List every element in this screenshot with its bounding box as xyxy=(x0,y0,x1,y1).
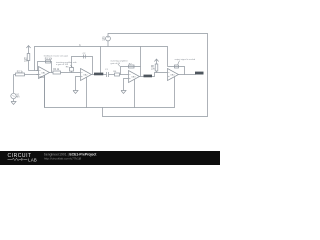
resistor R8 xyxy=(155,64,158,71)
svg-text:OA1: OA1 xyxy=(39,76,44,79)
voltage source V1 xyxy=(11,93,16,98)
node label stage2 out xyxy=(92,74,107,76)
resistor R5 (OA2 feedback lower) xyxy=(70,68,74,72)
svg-text:OA1: OA1 xyxy=(41,72,46,75)
svg-text:R3 10k: R3 10k xyxy=(45,58,53,60)
wire OA4 output xyxy=(179,74,196,76)
vcc arrow (R1 top) xyxy=(26,46,30,49)
resistor R2 xyxy=(14,74,16,76)
wire OA1 V- pin to bus xyxy=(44,76,46,108)
wire OA2 + input to ground xyxy=(76,77,81,91)
node label stage3 out xyxy=(140,76,144,78)
svg-text:OA2: OA2 xyxy=(83,74,88,77)
resistor R3 (OA1 feedback) xyxy=(46,60,51,63)
feedback loop OA3 xyxy=(121,67,141,75)
svg-text:OA3: OA3 xyxy=(131,76,136,79)
wire rail stub to stage2 output node xyxy=(100,47,102,75)
svg-text:LAB: LAB xyxy=(28,158,37,163)
svg-text:gain of 10: gain of 10 xyxy=(111,63,121,65)
feedback loop OA1 xyxy=(38,62,52,73)
wire stage3 to stage4 xyxy=(152,73,168,77)
ground (source) xyxy=(11,102,16,105)
resistor R4 (stage1 out) xyxy=(50,72,54,74)
vcc arrow (R8 top) xyxy=(154,59,158,62)
svg-text:a gain of 100: a gain of 100 xyxy=(56,64,69,66)
voltage source V2 xyxy=(106,36,111,41)
wire OA3 V- pin to bus xyxy=(134,80,136,108)
footer bar xyxy=(0,151,220,165)
op-amp OA1 xyxy=(39,67,50,79)
svg-text:feedback resistor sets gain: feedback resistor sets gain xyxy=(44,55,68,58)
svg-text:R4 1k: R4 1k xyxy=(53,69,60,71)
svg-text:5V: 5V xyxy=(102,40,105,42)
feedback loop OA2 xyxy=(72,57,93,75)
ground (OA2) xyxy=(73,91,78,94)
wire OA2 V- pin to bus xyxy=(86,78,88,108)
op-amp OA2 xyxy=(81,69,92,81)
wire rail stub to stage3 feedback xyxy=(140,47,142,77)
wire top rail xyxy=(35,47,168,71)
wire bottom bus A xyxy=(45,76,175,108)
capacitor C2 (OA2 feedback) xyxy=(83,55,85,59)
svg-text:http://circuitlab.com/c77b1j8: http://circuitlab.com/c77b1j8 xyxy=(44,157,82,161)
svg-text:output signal is scaled: output signal is scaled xyxy=(175,58,196,61)
ground (OA3) xyxy=(121,91,126,94)
svg-text:OA4: OA4 xyxy=(170,74,175,77)
resistor R7 (OA3 feedback) xyxy=(129,65,135,68)
wire V2 top to right riser down to bottom bus xyxy=(103,34,208,117)
resistor R6 xyxy=(109,74,115,76)
resistor R1 xyxy=(27,54,30,61)
capacitor C1 xyxy=(106,72,108,77)
svg-text:R2 1k: R2 1k xyxy=(17,72,24,74)
op-amp OA4 xyxy=(168,69,179,81)
op-amp OA3 xyxy=(129,71,140,83)
feedback loop OA4 xyxy=(168,67,185,75)
wire OA3 + input to ground xyxy=(124,79,129,91)
node label output xyxy=(195,72,204,75)
resistor R9 (OA4 feedback) xyxy=(175,65,179,68)
